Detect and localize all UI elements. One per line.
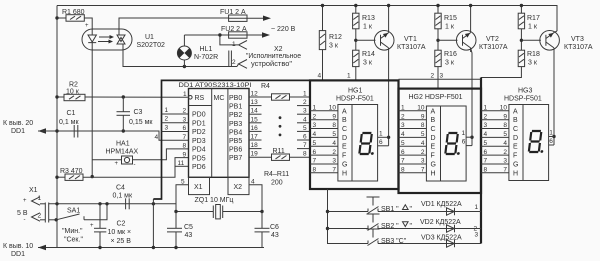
svg-text:1: 1 xyxy=(475,204,479,211)
svg-text:3: 3 xyxy=(332,158,336,165)
svg-text:R18: R18 xyxy=(527,51,540,58)
svg-text:PD4: PD4 xyxy=(192,147,206,154)
wire PB stubs pins 13-18 xyxy=(249,106,262,149)
svg-text:HDSP-F501: HDSP-F501 xyxy=(336,96,374,103)
svg-text:+: + xyxy=(85,23,89,29)
node net label 4 xyxy=(155,134,159,141)
svg-text:R14: R14 xyxy=(362,51,375,58)
svg-text:7: 7 xyxy=(303,142,307,149)
connector X1 xyxy=(17,187,49,223)
wire segment bus ring around HG2 xyxy=(399,89,482,193)
svg-text:5: 5 xyxy=(313,140,317,147)
resistor R14 xyxy=(353,50,375,66)
svg-text:VT1: VT1 xyxy=(404,36,417,43)
switch SA1 xyxy=(55,208,85,222)
svg-text:VT2: VT2 xyxy=(486,36,499,43)
svg-text:2: 2 xyxy=(503,149,507,156)
svg-text:SB1 ": SB1 " xyxy=(381,206,399,213)
node HG2 segment letters xyxy=(431,108,436,177)
resistor R16 xyxy=(435,50,457,66)
microcontroller DD1 AT90S2313-10PI xyxy=(179,82,252,177)
diode VD2 KD522A xyxy=(420,219,461,232)
svg-text:4: 4 xyxy=(484,131,488,138)
svg-text:PB6: PB6 xyxy=(229,147,242,154)
svg-text:D: D xyxy=(431,135,436,142)
capacitor C1 xyxy=(59,110,79,138)
svg-text:SB3 "С": SB3 "С" xyxy=(381,238,407,245)
svg-text:9: 9 xyxy=(503,113,507,120)
svg-text:PD3: PD3 xyxy=(192,138,206,145)
wire ground bottom rail xyxy=(38,247,264,249)
node DD1 right pin labels PB0-PB7 xyxy=(229,95,242,162)
svg-text:2: 2 xyxy=(332,149,336,156)
svg-text:13: 13 xyxy=(251,99,259,106)
svg-text:F: F xyxy=(431,153,435,160)
node R4-R11 200 value label xyxy=(264,171,289,187)
svg-text:5: 5 xyxy=(303,125,307,132)
svg-text:0,1 мк: 0,1 мк xyxy=(113,193,133,200)
svg-text:КТ3107А: КТ3107А xyxy=(479,44,508,51)
svg-text:8: 8 xyxy=(332,122,336,129)
svg-text:PB3: PB3 xyxy=(229,121,242,128)
svg-text:7: 7 xyxy=(484,158,488,165)
svg-text:7: 7 xyxy=(332,167,336,174)
svg-text:HPM14AX: HPM14AX xyxy=(106,149,139,156)
svg-text:3: 3 xyxy=(421,158,425,165)
svg-text:PB0: PB0 xyxy=(229,95,242,102)
wire opto triac top to FU1 xyxy=(119,18,229,29)
node net2 at v3 xyxy=(474,226,478,233)
node ellipsis between R4 and R11 xyxy=(279,116,282,136)
wire R13 R14 leads and base node xyxy=(354,4,375,81)
connector X2 xyxy=(229,41,283,69)
svg-text:2: 2 xyxy=(401,113,405,120)
wire select line over HG2 xyxy=(399,78,482,80)
svg-text:R15: R15 xyxy=(444,15,457,22)
svg-text:B: B xyxy=(513,117,518,124)
svg-text:3: 3 xyxy=(503,158,507,165)
node ~220 V label xyxy=(271,26,296,33)
wire net4 C1 line to pin7 xyxy=(38,129,189,140)
svg-text:КТ3107А: КТ3107А xyxy=(397,44,426,51)
node SB1 label xyxy=(381,205,413,213)
node HG1 pin numbers xyxy=(329,105,337,174)
svg-text:КТ3107А: КТ3107А xyxy=(564,44,593,51)
wire DD1 pin4 to crystal node xyxy=(249,185,262,212)
diode VD1 KD522A xyxy=(421,201,462,215)
svg-text:DD1: DD1 xyxy=(11,128,25,135)
svg-text:C4: C4 xyxy=(116,185,125,192)
node DD1 left pin labels PD0-PD6 xyxy=(192,112,206,171)
svg-text:4: 4 xyxy=(155,134,159,141)
svg-text:3 к: 3 к xyxy=(528,60,538,67)
wire FU1 output arrow xyxy=(247,16,271,21)
wire segment bus v3 to keyboard diodes xyxy=(480,78,482,244)
wire FU2 output arrow xyxy=(247,32,270,37)
svg-text:D: D xyxy=(513,135,518,142)
svg-text:8: 8 xyxy=(401,167,405,174)
wire HG1 common pins 1 6 xyxy=(378,130,389,146)
lamp HL1 N-702R xyxy=(177,35,191,67)
node DD1 X1 X2 crystal sub-boxes xyxy=(181,177,255,194)
svg-text:3: 3 xyxy=(475,232,479,239)
svg-text:2: 2 xyxy=(183,108,187,115)
svg-text:6: 6 xyxy=(484,149,488,156)
svg-text:6: 6 xyxy=(183,125,187,132)
svg-text:7: 7 xyxy=(183,134,187,141)
svg-text:R4–R11: R4–R11 xyxy=(264,171,289,178)
transistor VT1 KT3107A xyxy=(374,4,394,52)
capacitor C4 xyxy=(113,185,133,210)
svg-text:-: - xyxy=(134,162,136,168)
wire HG2 common pins 1 6 xyxy=(462,130,473,146)
resistor R13 xyxy=(353,13,375,30)
wire X1 pin2 to SA1 xyxy=(49,219,57,221)
display HG1 HDSP-F501 xyxy=(336,88,378,182)
svg-text:1: 1 xyxy=(401,105,405,112)
svg-text:1 к: 1 к xyxy=(445,24,455,31)
svg-text:× 25 В: × 25 В xyxy=(111,238,132,245)
fuse FU1 xyxy=(220,9,247,21)
resistor R15 xyxy=(435,13,457,30)
node HG2 pin numbers xyxy=(417,105,425,174)
svg-text:18: 18 xyxy=(251,142,259,149)
svg-text:"Мин.": "Мин." xyxy=(62,228,83,235)
crystal ZQ1 10 MHz xyxy=(174,197,263,219)
svg-text:0,1 мк: 0,1 мк xyxy=(59,119,79,126)
svg-text:3: 3 xyxy=(303,108,307,115)
node VT1 label xyxy=(397,36,426,51)
svg-text:U1: U1 xyxy=(145,34,154,41)
resistor R4 xyxy=(249,83,310,100)
svg-text:8: 8 xyxy=(421,122,425,129)
svg-text:3: 3 xyxy=(484,122,488,129)
capacitor C5 xyxy=(167,212,193,250)
svg-text:PB7: PB7 xyxy=(229,155,242,162)
svg-text:1: 1 xyxy=(549,130,553,137)
svg-text:200: 200 xyxy=(271,180,283,187)
svg-text:B: B xyxy=(342,117,347,124)
svg-text:"Исполнительное: "Исполнительное xyxy=(246,53,301,60)
capacitor C2 xyxy=(90,204,131,249)
wire mode line to ground rail xyxy=(152,204,155,249)
svg-text:S202T02: S202T02 xyxy=(137,42,166,49)
svg-text:A: A xyxy=(342,108,347,115)
svg-text:8: 8 xyxy=(484,167,488,174)
svg-text:6: 6 xyxy=(313,149,317,156)
svg-text:6: 6 xyxy=(462,139,466,146)
svg-text:1: 1 xyxy=(165,107,169,114)
svg-text:5 В: 5 В xyxy=(17,210,28,217)
svg-text:D: D xyxy=(342,135,347,142)
wire SB2 row xyxy=(328,228,482,230)
svg-text:1: 1 xyxy=(38,195,42,202)
svg-text:4: 4 xyxy=(421,140,425,147)
svg-text:6: 6 xyxy=(379,139,383,146)
node HG2 net numbers xyxy=(401,105,405,174)
node bus entry net numbers 1-8 xyxy=(303,91,307,158)
resistor R11 xyxy=(249,148,310,160)
svg-text:7: 7 xyxy=(421,167,425,174)
svg-text:G: G xyxy=(513,162,518,169)
wire opto triac bottom rail to X2 pin2 xyxy=(123,50,237,68)
svg-text:F: F xyxy=(513,153,517,160)
node DD1 right pin numbers 12-19 xyxy=(251,91,259,158)
svg-text:-: - xyxy=(24,217,26,223)
svg-text:DD1: DD1 xyxy=(11,251,25,258)
svg-text:PB2: PB2 xyxy=(229,112,242,119)
svg-text:3 к: 3 к xyxy=(329,43,339,50)
svg-text:1: 1 xyxy=(232,41,236,48)
wire bus tap net3 to PD2 xyxy=(162,125,189,132)
wire VT1 collector to HG1 common xyxy=(387,52,390,146)
svg-text:10: 10 xyxy=(417,105,425,112)
svg-text:10: 10 xyxy=(500,105,508,112)
svg-text:R17: R17 xyxy=(527,15,540,22)
svg-text:43: 43 xyxy=(185,232,193,239)
svg-text:3: 3 xyxy=(183,116,187,123)
svg-text:9: 9 xyxy=(421,113,425,120)
svg-text:1 к: 1 к xyxy=(528,24,538,31)
svg-text:2: 2 xyxy=(165,116,169,123)
svg-text:PD6: PD6 xyxy=(192,164,206,171)
wire SA1 to +5V line riser xyxy=(84,202,109,220)
svg-text:MC: MC xyxy=(214,95,225,102)
resistor R2 xyxy=(64,82,85,101)
svg-text:PD2: PD2 xyxy=(192,129,206,136)
svg-text:15: 15 xyxy=(251,116,259,123)
svg-text:C: C xyxy=(431,126,436,133)
svg-text:2: 2 xyxy=(421,149,425,156)
wire R18 bottom to keyboard bus v3 xyxy=(481,67,521,78)
diode VD3 KD522A xyxy=(421,235,462,248)
svg-text:2: 2 xyxy=(232,59,236,66)
wire bus tap net2 to PD1 xyxy=(162,116,189,123)
svg-text:C5: C5 xyxy=(184,224,193,231)
svg-text:C6: C6 xyxy=(270,224,279,231)
optocoupler U1 S202T02 xyxy=(82,29,132,50)
svg-text:HA1: HA1 xyxy=(116,141,130,148)
node HG3 segment letters xyxy=(513,108,518,177)
node VT2 label xyxy=(479,36,508,51)
svg-text:10 мк ×: 10 мк × xyxy=(108,229,132,236)
svg-text:16: 16 xyxy=(251,125,259,132)
node HG1 net numbers xyxy=(313,105,317,174)
svg-text:1 к: 1 к xyxy=(363,24,373,31)
svg-text:5: 5 xyxy=(421,131,425,138)
svg-text:H: H xyxy=(513,170,518,177)
svg-text:3: 3 xyxy=(440,73,444,80)
svg-text:1: 1 xyxy=(183,91,187,98)
svg-text:RS: RS xyxy=(195,95,205,102)
wire opto LED cathode down to HA1 and R3 node xyxy=(91,50,94,178)
capacitor C3 xyxy=(117,97,154,131)
svg-text:1: 1 xyxy=(379,130,383,137)
wire HG3 common pins 1 6 xyxy=(549,130,554,146)
svg-text:E: E xyxy=(431,144,436,151)
svg-text:X1: X1 xyxy=(194,184,203,191)
svg-text:1: 1 xyxy=(462,130,466,137)
svg-text:2: 2 xyxy=(303,99,307,106)
resistor R18 xyxy=(518,50,540,66)
wire VT3 collector to HG3 common xyxy=(552,52,555,145)
fuse FU2 xyxy=(221,26,247,38)
svg-text:2: 2 xyxy=(484,113,488,120)
node SB3 label xyxy=(381,238,407,245)
svg-text:7: 7 xyxy=(401,158,405,165)
svg-text:SB2 ": SB2 " xyxy=(381,223,399,230)
resistor R12 xyxy=(319,31,342,50)
svg-text:C: C xyxy=(513,126,518,133)
svg-text:17: 17 xyxy=(251,134,259,141)
svg-text:5: 5 xyxy=(503,131,507,138)
svg-text:PB5: PB5 xyxy=(229,138,242,145)
svg-text:X2: X2 xyxy=(274,46,283,53)
wire HG2 segment taps xyxy=(399,111,427,173)
svg-text:HDSP-F501: HDSP-F501 xyxy=(504,96,542,103)
wire HG1 segment taps xyxy=(310,111,338,173)
node SA1 Мин Сек labels xyxy=(62,228,83,244)
svg-text:3: 3 xyxy=(165,125,169,132)
svg-text:8: 8 xyxy=(313,167,317,174)
svg-text:4: 4 xyxy=(401,131,405,138)
svg-text:~ 220 В: ~ 220 В xyxy=(271,26,296,33)
svg-text:HG2 HDSP-F501: HG2 HDSP-F501 xyxy=(409,94,463,101)
node SB2 label xyxy=(381,222,413,230)
wire R2 to RS pin1 xyxy=(55,95,188,98)
svg-text:SA1: SA1 xyxy=(67,208,80,215)
svg-text:3 к: 3 к xyxy=(445,60,455,67)
svg-text:5: 5 xyxy=(332,131,336,138)
svg-text:HG1: HG1 xyxy=(348,88,363,95)
svg-text:N-702R: N-702R xyxy=(194,54,218,61)
svg-text:HL1: HL1 xyxy=(200,46,213,53)
wire R15 R16 leads and base node xyxy=(436,4,457,89)
wire +5V top rail xyxy=(57,6,557,32)
wire R3 net to pins 9 and 11 xyxy=(55,158,188,179)
svg-text:1: 1 xyxy=(347,73,351,80)
svg-text:C: C xyxy=(342,126,347,133)
svg-text:PD0: PD0 xyxy=(192,112,206,119)
button SB2 xyxy=(367,214,380,231)
node VT3 label xyxy=(564,36,593,51)
svg-text:ZQ1 10 МГц: ZQ1 10 МГц xyxy=(195,197,234,204)
svg-text:9: 9 xyxy=(183,151,187,158)
svg-text:7: 7 xyxy=(313,158,317,165)
svg-text:8: 8 xyxy=(183,143,187,150)
svg-text:X1: X1 xyxy=(29,187,38,194)
svg-text:PB1: PB1 xyxy=(229,104,242,111)
node net1 at v3 xyxy=(475,204,479,211)
resistor R1 xyxy=(62,9,85,21)
wire HA1 right to pin8 PD4 xyxy=(133,149,189,160)
svg-text:5: 5 xyxy=(401,140,405,147)
svg-text:6: 6 xyxy=(549,138,553,145)
svg-text:6: 6 xyxy=(401,149,405,156)
wire segment bus ring around HG1 xyxy=(310,80,399,189)
display HG2 HDSP-F501 xyxy=(409,94,467,181)
svg-text:К выв. 10: К выв. 10 xyxy=(3,243,33,250)
svg-text:VT3: VT3 xyxy=(571,36,584,43)
svg-text:9: 9 xyxy=(332,113,336,120)
svg-text:4: 4 xyxy=(313,131,317,138)
svg-text:E: E xyxy=(342,144,347,151)
node HG1 top pin numbers 4 1 xyxy=(318,73,352,80)
svg-text:HG3: HG3 xyxy=(518,88,533,95)
svg-text:устройство": устройство" xyxy=(251,60,293,68)
node К выв. 20 DD1 arrow xyxy=(3,120,46,135)
svg-text:3: 3 xyxy=(313,122,317,129)
wire SB3 row xyxy=(367,243,482,245)
svg-text:H: H xyxy=(431,170,436,177)
svg-text:0,15 мк: 0,15 мк xyxy=(129,119,153,126)
svg-text:4: 4 xyxy=(303,116,307,123)
svg-text:43: 43 xyxy=(271,232,279,239)
wire bus MCU keyboard nets xyxy=(153,80,310,203)
node HG1 segment letters xyxy=(342,108,347,177)
svg-text:R13: R13 xyxy=(362,15,375,22)
svg-text:R16: R16 xyxy=(444,51,457,58)
wire HA1 left to opto line xyxy=(92,159,121,161)
svg-text:4: 4 xyxy=(332,140,336,147)
svg-text:12: 12 xyxy=(251,91,259,98)
svg-text:4: 4 xyxy=(318,73,322,80)
svg-text:PB4: PB4 xyxy=(229,129,242,136)
node HG3 net numbers xyxy=(484,105,488,174)
wire bus tap net1 to PD0 xyxy=(162,107,189,114)
svg-text:B: B xyxy=(431,117,436,124)
display HG3 HDSP-F501 xyxy=(504,88,549,181)
wire VT2 collector to HG2 common xyxy=(470,48,473,146)
node HG3 pin numbers xyxy=(500,105,508,174)
node HL1 label xyxy=(194,46,218,61)
transistor VT3 KT3107A xyxy=(540,31,560,53)
svg-text:4: 4 xyxy=(503,140,507,147)
wire segment net stubs 1-8 into bus xyxy=(297,106,310,149)
svg-text:A: A xyxy=(431,108,436,115)
svg-text:C1: C1 xyxy=(67,110,76,117)
svg-text:2: 2 xyxy=(431,73,435,80)
wire HG3 segment taps xyxy=(481,111,509,173)
wire SB1 row xyxy=(328,211,482,213)
wire HL1 top to FU2 and X2 pin1 drop xyxy=(184,33,238,45)
svg-text:3 к: 3 к xyxy=(363,60,373,67)
svg-text:14: 14 xyxy=(251,108,259,115)
buzzer HA1 HPM14AX xyxy=(106,141,139,169)
button SB3 xyxy=(367,229,380,246)
svg-text:3: 3 xyxy=(401,122,405,129)
capacitor C6 xyxy=(255,212,280,248)
resistor R17 xyxy=(518,13,540,30)
wire left vertical supply line xyxy=(56,6,58,248)
svg-text:1: 1 xyxy=(303,91,307,98)
svg-text:11: 11 xyxy=(178,160,185,167)
svg-text:F: F xyxy=(342,153,346,160)
transistor VT2 KT3107A xyxy=(456,4,476,52)
svg-text:5: 5 xyxy=(484,140,488,147)
svg-text:PD1: PD1 xyxy=(192,120,206,127)
wire keyboard left column xyxy=(326,189,367,244)
wire R1 to opto LED anode xyxy=(55,16,92,29)
node HG2 top pin numbers 2 3 xyxy=(431,73,444,80)
svg-text:8: 8 xyxy=(303,151,307,158)
svg-text:R12: R12 xyxy=(329,34,342,41)
wire DD1 pin5 to crystal node xyxy=(176,185,189,212)
svg-text:R4: R4 xyxy=(261,83,270,90)
node DD1 left pin numbers xyxy=(178,91,188,167)
svg-text:+: + xyxy=(90,223,94,229)
wire X1 pin1 +5V distribution xyxy=(49,202,176,205)
